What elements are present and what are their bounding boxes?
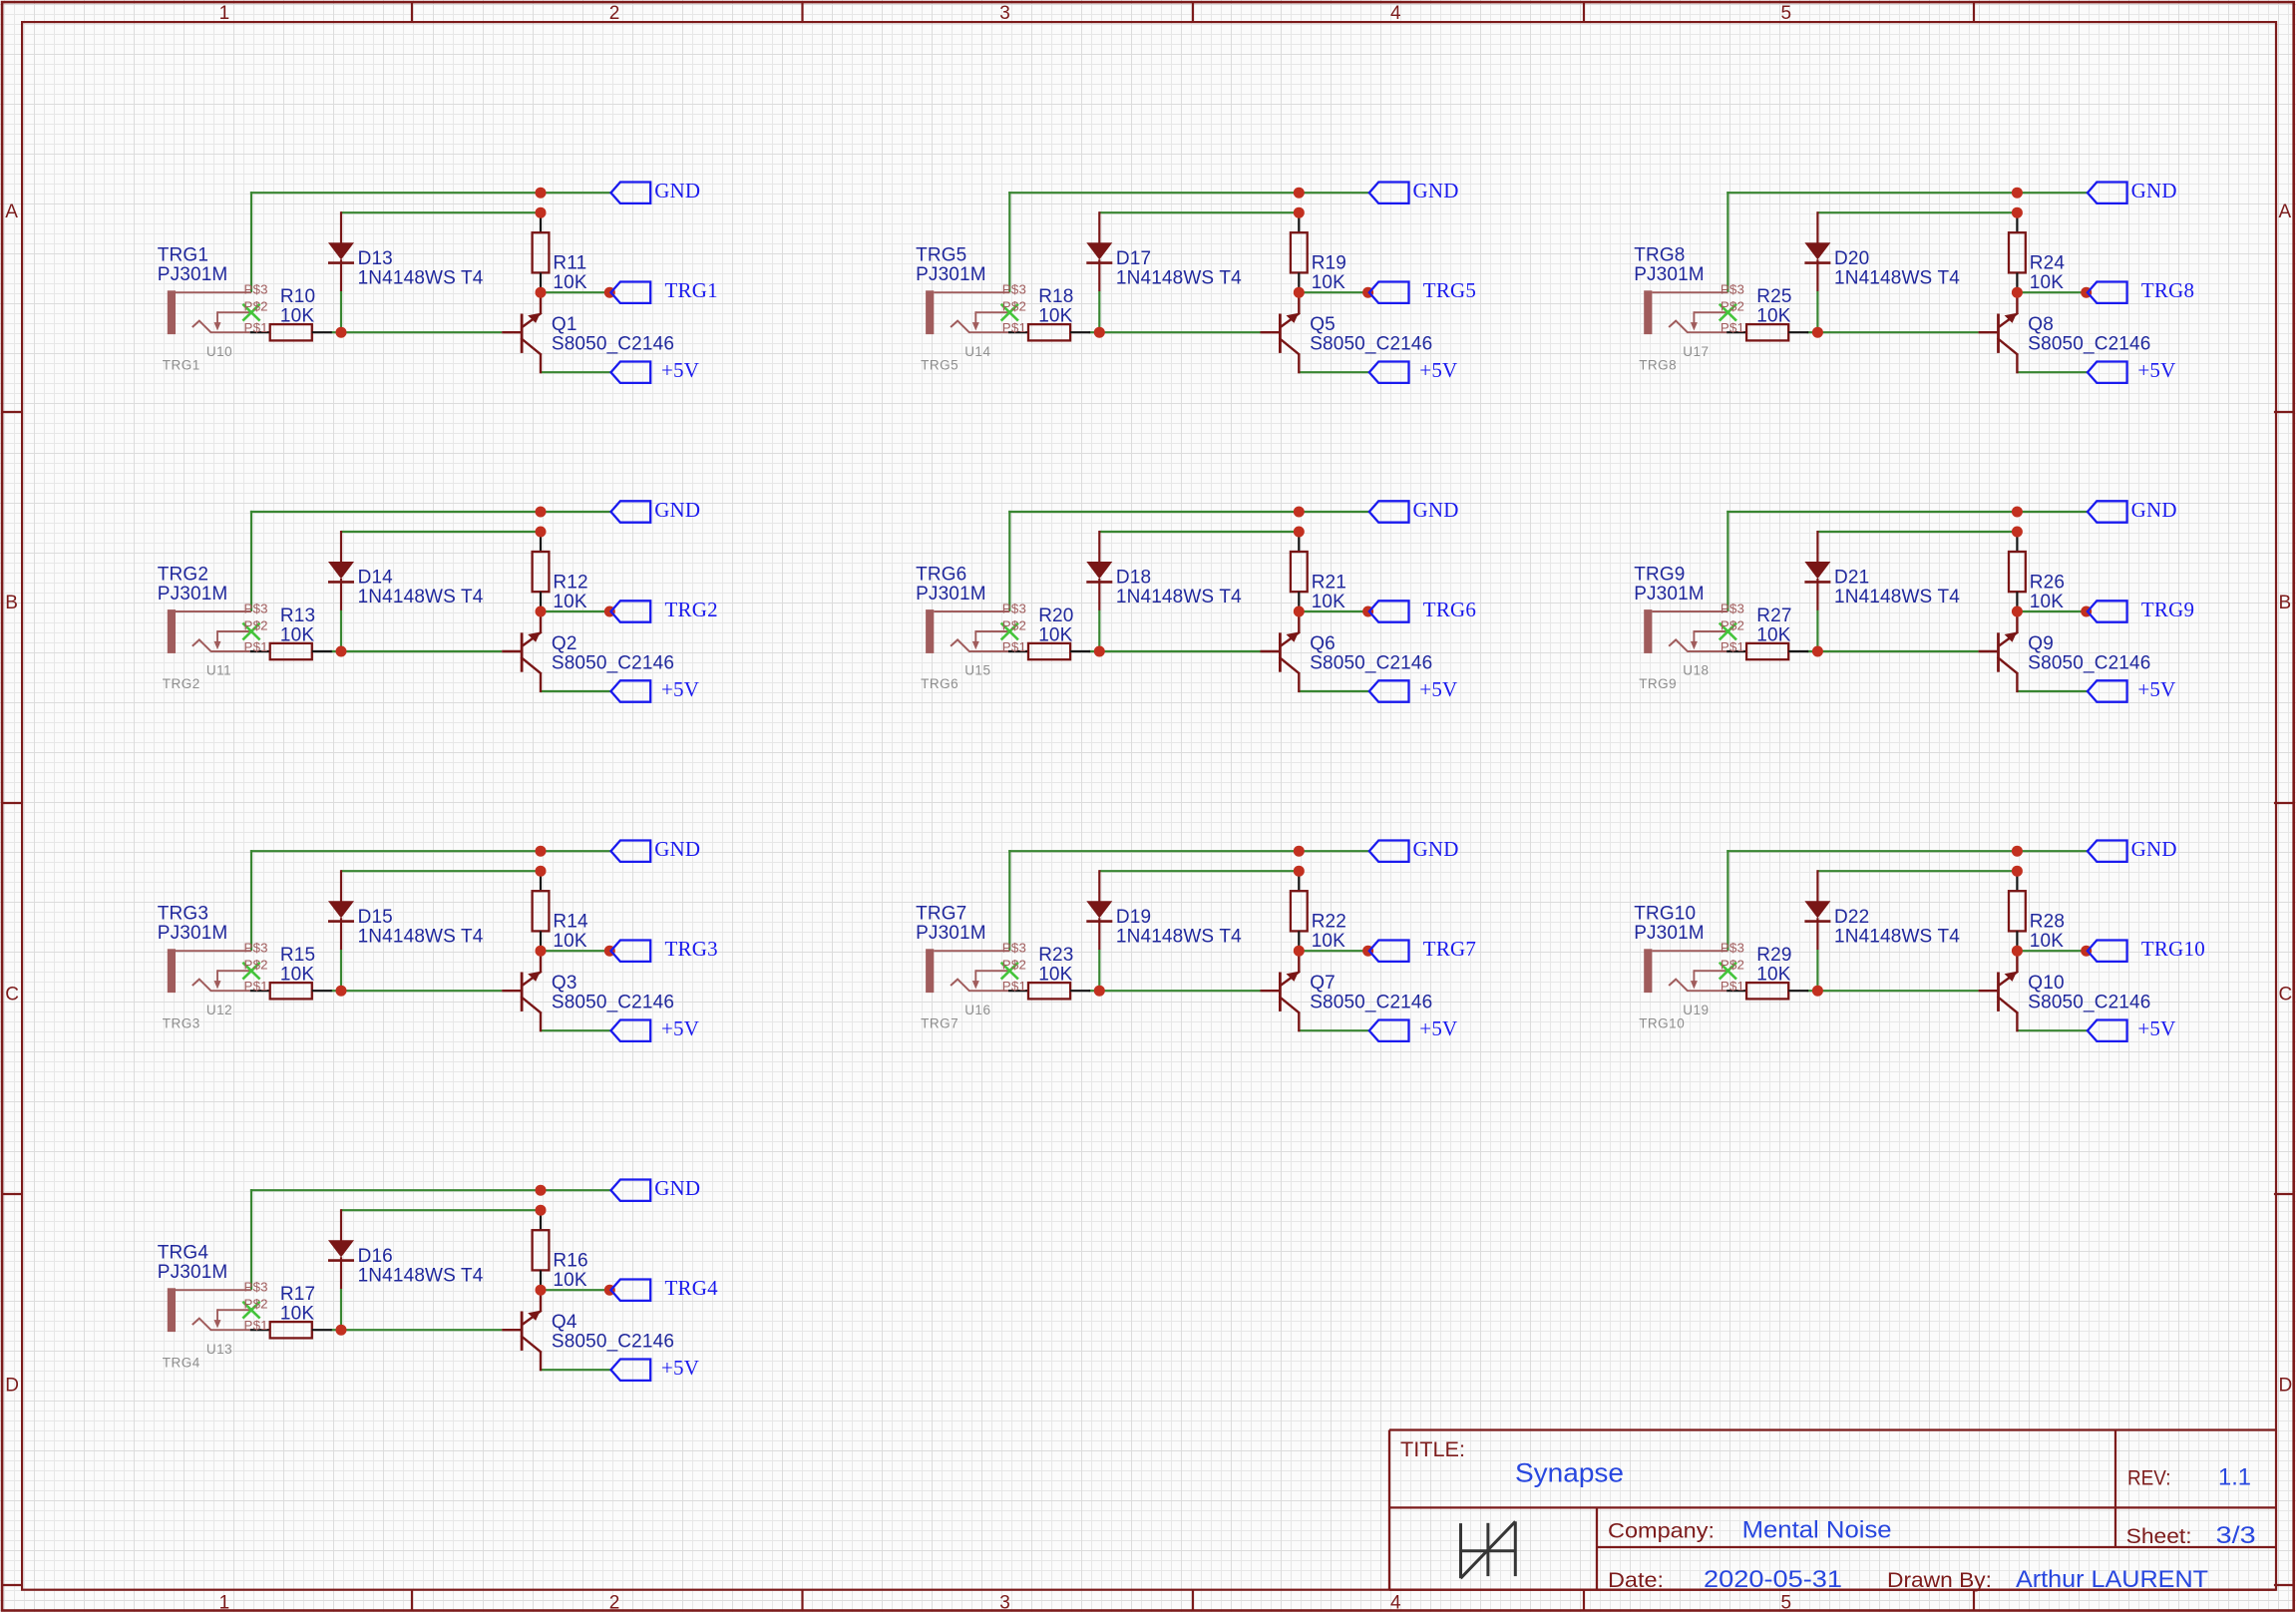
svg-text:3/3: 3/3: [2216, 1522, 2256, 1549]
svg-text:P$2: P$2: [1721, 958, 1744, 973]
svg-text:PJ301M: PJ301M: [916, 264, 986, 285]
svg-text:TRG8: TRG8: [1634, 245, 1685, 266]
svg-text:U12: U12: [206, 1003, 232, 1017]
svg-text:P$1: P$1: [1721, 639, 1744, 654]
svg-text:P$1: P$1: [1002, 979, 1026, 994]
svg-text:10K: 10K: [1038, 306, 1072, 327]
svg-text:Arthur LAURENT: Arthur LAURENT: [2016, 1566, 2208, 1593]
svg-text:TRG1: TRG1: [158, 245, 208, 266]
svg-text:1N4148WS T4: 1N4148WS T4: [1834, 926, 1960, 947]
svg-text:TRG7: TRG7: [916, 904, 966, 925]
svg-text:D18: D18: [1116, 568, 1151, 589]
svg-text:R29: R29: [1756, 945, 1791, 966]
svg-text:D13: D13: [358, 248, 393, 269]
svg-text:10K: 10K: [1756, 306, 1790, 327]
svg-text:A: A: [5, 201, 18, 222]
svg-text:Q9: Q9: [2028, 633, 2054, 654]
svg-text:TRG2: TRG2: [665, 598, 718, 621]
svg-text:10K: 10K: [1756, 624, 1790, 645]
svg-text:GND: GND: [1413, 179, 1459, 202]
svg-text:D17: D17: [1116, 248, 1151, 269]
svg-text:Q6: Q6: [1310, 633, 1336, 654]
svg-text:+5V: +5V: [2137, 358, 2175, 382]
svg-text:TRG10: TRG10: [2141, 937, 2205, 961]
svg-text:GND: GND: [2131, 837, 2177, 861]
svg-text:GND: GND: [1413, 498, 1459, 522]
svg-text:10K: 10K: [280, 965, 314, 986]
svg-text:P$3: P$3: [244, 941, 268, 956]
svg-text:1N4148WS T4: 1N4148WS T4: [1834, 267, 1960, 288]
svg-text:D19: D19: [1116, 907, 1151, 928]
svg-text:3: 3: [999, 3, 1010, 24]
svg-text:4: 4: [1390, 1593, 1401, 1612]
svg-text:P$3: P$3: [1721, 282, 1744, 297]
svg-text:GND: GND: [654, 837, 700, 861]
svg-text:P$2: P$2: [244, 958, 268, 973]
svg-text:P$1: P$1: [1721, 979, 1744, 994]
svg-text:TRG4: TRG4: [158, 1243, 209, 1264]
svg-text:TRG1: TRG1: [163, 357, 200, 372]
svg-text:PJ301M: PJ301M: [1634, 264, 1705, 285]
svg-text:B: B: [2279, 593, 2292, 613]
svg-text:P$3: P$3: [244, 1280, 268, 1295]
svg-text:PJ301M: PJ301M: [158, 923, 228, 944]
svg-text:10K: 10K: [553, 272, 586, 293]
svg-text:GND: GND: [654, 1176, 700, 1200]
svg-text:10K: 10K: [553, 931, 586, 952]
svg-text:10K: 10K: [2030, 592, 2064, 612]
svg-text:Synapse: Synapse: [1515, 1458, 1624, 1488]
svg-text:P$1: P$1: [244, 979, 268, 994]
svg-text:R28: R28: [2030, 912, 2065, 933]
svg-text:U14: U14: [964, 344, 990, 359]
svg-text:Mental Noise: Mental Noise: [1742, 1517, 1892, 1544]
svg-text:P$1: P$1: [1721, 320, 1744, 335]
svg-text:R12: R12: [553, 573, 587, 594]
svg-text:TRG6: TRG6: [916, 565, 966, 586]
svg-text:D21: D21: [1834, 568, 1869, 589]
svg-text:S8050_C2146: S8050_C2146: [1310, 993, 1432, 1013]
svg-text:10K: 10K: [1312, 272, 1345, 293]
svg-text:Q3: Q3: [552, 973, 577, 994]
svg-text:10K: 10K: [280, 624, 314, 645]
svg-text:GND: GND: [2131, 179, 2177, 202]
svg-text:D: D: [2279, 1376, 2293, 1397]
svg-text:S8050_C2146: S8050_C2146: [1310, 652, 1432, 673]
svg-text:P$1: P$1: [244, 639, 268, 654]
svg-text:Date:: Date:: [1608, 1569, 1664, 1592]
svg-text:10K: 10K: [280, 1304, 314, 1325]
svg-text:R24: R24: [2030, 253, 2066, 274]
svg-text:TRG10: TRG10: [1639, 1015, 1685, 1030]
svg-text:1N4148WS T4: 1N4148WS T4: [1116, 267, 1242, 288]
svg-text:10K: 10K: [1038, 965, 1072, 986]
svg-text:TRG8: TRG8: [1639, 357, 1677, 372]
svg-text:U18: U18: [1683, 663, 1709, 678]
svg-text:PJ301M: PJ301M: [158, 264, 228, 285]
svg-text:TRG4: TRG4: [665, 1276, 719, 1300]
svg-text:R10: R10: [280, 286, 315, 307]
svg-text:Q10: Q10: [2028, 973, 2064, 994]
svg-text:TRG10: TRG10: [1634, 904, 1696, 925]
svg-text:R17: R17: [280, 1284, 315, 1305]
svg-text:S8050_C2146: S8050_C2146: [2028, 652, 2150, 673]
svg-text:GND: GND: [654, 498, 700, 522]
svg-text:D15: D15: [358, 907, 393, 928]
svg-text:R27: R27: [1756, 605, 1791, 626]
svg-text:TRG3: TRG3: [163, 1015, 200, 1030]
svg-text:P$1: P$1: [1002, 639, 1026, 654]
svg-text:TRG5: TRG5: [1423, 278, 1476, 302]
svg-text:P$3: P$3: [1721, 941, 1744, 956]
svg-text:P$2: P$2: [244, 618, 268, 633]
svg-text:P$2: P$2: [1002, 299, 1026, 314]
svg-text:D22: D22: [1834, 907, 1869, 928]
svg-text:R20: R20: [1038, 605, 1073, 626]
svg-text:S8050_C2146: S8050_C2146: [552, 1332, 674, 1353]
svg-text:TRG2: TRG2: [158, 565, 208, 586]
svg-text:P$1: P$1: [1002, 320, 1026, 335]
svg-text:+5V: +5V: [661, 1356, 699, 1380]
svg-text:TRG7: TRG7: [921, 1015, 958, 1030]
svg-text:S8050_C2146: S8050_C2146: [1310, 334, 1432, 355]
svg-text:1: 1: [219, 3, 230, 24]
svg-text:Q8: Q8: [2028, 314, 2054, 335]
svg-text:Company:: Company:: [1608, 1520, 1715, 1543]
svg-text:U19: U19: [1683, 1003, 1709, 1017]
svg-text:S8050_C2146: S8050_C2146: [552, 652, 674, 673]
svg-text:U10: U10: [206, 344, 232, 359]
svg-text:R23: R23: [1038, 945, 1073, 966]
svg-text:GND: GND: [2131, 498, 2177, 522]
svg-text:PJ301M: PJ301M: [158, 584, 228, 604]
svg-text:PJ301M: PJ301M: [916, 584, 986, 604]
svg-text:P$3: P$3: [1721, 602, 1744, 616]
svg-text:R19: R19: [1312, 253, 1346, 274]
svg-text:1N4148WS T4: 1N4148WS T4: [358, 267, 484, 288]
svg-text:3: 3: [999, 1593, 1010, 1612]
svg-text:4: 4: [1390, 3, 1401, 24]
svg-text:10K: 10K: [2030, 272, 2064, 293]
svg-text:TRG4: TRG4: [163, 1355, 200, 1370]
svg-text:10K: 10K: [1312, 592, 1345, 612]
svg-text:P$1: P$1: [244, 320, 268, 335]
svg-text:10K: 10K: [1312, 931, 1345, 952]
svg-text:1N4148WS T4: 1N4148WS T4: [1116, 926, 1242, 947]
svg-text:1N4148WS T4: 1N4148WS T4: [358, 1265, 484, 1286]
svg-text:TITLE:: TITLE:: [1400, 1438, 1465, 1461]
svg-text:S8050_C2146: S8050_C2146: [2028, 334, 2150, 355]
svg-text:TRG3: TRG3: [665, 937, 718, 961]
svg-text:R14: R14: [553, 912, 588, 933]
svg-text:D16: D16: [358, 1246, 393, 1267]
svg-text:U16: U16: [964, 1003, 990, 1017]
svg-text:GND: GND: [1413, 837, 1459, 861]
svg-text:S8050_C2146: S8050_C2146: [552, 334, 674, 355]
svg-text:Q4: Q4: [552, 1312, 577, 1333]
svg-text:P$2: P$2: [244, 299, 268, 314]
svg-text:B: B: [5, 593, 18, 613]
svg-text:+5V: +5V: [1419, 1016, 1457, 1040]
svg-text:TRG5: TRG5: [921, 357, 958, 372]
svg-text:U11: U11: [206, 663, 231, 678]
svg-text:D: D: [5, 1376, 19, 1397]
svg-text:TRG9: TRG9: [2141, 598, 2194, 621]
svg-text:5: 5: [1781, 3, 1792, 24]
svg-text:PJ301M: PJ301M: [1634, 584, 1705, 604]
svg-text:TRG8: TRG8: [2141, 278, 2194, 302]
svg-text:D14: D14: [358, 568, 394, 589]
svg-text:P$2: P$2: [244, 1297, 268, 1312]
svg-text:PJ301M: PJ301M: [916, 923, 986, 944]
svg-text:+5V: +5V: [2137, 1016, 2175, 1040]
svg-text:10K: 10K: [553, 1270, 586, 1291]
svg-text:10K: 10K: [1756, 965, 1790, 986]
svg-text:+5V: +5V: [2137, 677, 2175, 701]
svg-text:P$2: P$2: [1002, 958, 1026, 973]
svg-text:R21: R21: [1312, 573, 1346, 594]
svg-text:10K: 10K: [2030, 931, 2064, 952]
svg-text:1N4148WS T4: 1N4148WS T4: [1834, 587, 1960, 607]
svg-text:R18: R18: [1038, 286, 1073, 307]
svg-text:S8050_C2146: S8050_C2146: [552, 993, 674, 1013]
svg-text:P$3: P$3: [244, 602, 268, 616]
svg-text:1N4148WS T4: 1N4148WS T4: [1116, 587, 1242, 607]
svg-text:TRG1: TRG1: [665, 278, 718, 302]
svg-text:2020-05-31: 2020-05-31: [1704, 1566, 1842, 1593]
svg-text:R16: R16: [553, 1251, 587, 1272]
svg-text:C: C: [5, 985, 19, 1006]
svg-text:TRG6: TRG6: [1423, 598, 1476, 621]
svg-text:P$3: P$3: [1002, 282, 1026, 297]
svg-text:1: 1: [219, 1593, 230, 1612]
svg-text:U17: U17: [1683, 344, 1709, 359]
svg-text:GND: GND: [654, 179, 700, 202]
svg-text:Q5: Q5: [1310, 314, 1336, 335]
svg-text:1.1: 1.1: [2218, 1464, 2251, 1491]
svg-text:D20: D20: [1834, 248, 1869, 269]
svg-text:P$2: P$2: [1721, 618, 1744, 633]
svg-text:TRG5: TRG5: [916, 245, 966, 266]
svg-text:TRG2: TRG2: [163, 676, 200, 691]
svg-text:+5V: +5V: [661, 1016, 699, 1040]
svg-text:Sheet:: Sheet:: [2126, 1525, 2192, 1548]
svg-text:2: 2: [609, 3, 620, 24]
svg-text:Q7: Q7: [1310, 973, 1336, 994]
svg-text:REV:: REV:: [2127, 1467, 2171, 1490]
svg-text:10K: 10K: [1038, 624, 1072, 645]
svg-text:C: C: [2279, 985, 2293, 1006]
svg-text:+5V: +5V: [661, 677, 699, 701]
svg-text:+5V: +5V: [1419, 677, 1457, 701]
svg-text:2: 2: [609, 1593, 620, 1612]
svg-text:R22: R22: [1312, 912, 1346, 933]
svg-text:R15: R15: [280, 945, 315, 966]
svg-text:P$1: P$1: [244, 1318, 268, 1333]
svg-text:TRG6: TRG6: [921, 676, 958, 691]
svg-text:P$3: P$3: [1002, 941, 1026, 956]
svg-text:R11: R11: [553, 253, 586, 274]
svg-text:P$3: P$3: [244, 282, 268, 297]
svg-text:PJ301M: PJ301M: [1634, 923, 1705, 944]
svg-text:Q2: Q2: [552, 633, 577, 654]
svg-text:Q1: Q1: [552, 314, 577, 335]
svg-text:S8050_C2146: S8050_C2146: [2028, 993, 2150, 1013]
svg-text:Drawn By:: Drawn By:: [1887, 1569, 1992, 1592]
svg-text:1N4148WS T4: 1N4148WS T4: [358, 587, 484, 607]
svg-text:TRG9: TRG9: [1634, 565, 1685, 586]
svg-text:PJ301M: PJ301M: [158, 1262, 228, 1283]
svg-text:10K: 10K: [553, 592, 586, 612]
svg-text:U15: U15: [964, 663, 990, 678]
svg-text:R26: R26: [2030, 573, 2065, 594]
svg-text:P$3: P$3: [1002, 602, 1026, 616]
svg-text:1N4148WS T4: 1N4148WS T4: [358, 926, 484, 947]
svg-text:P$2: P$2: [1721, 299, 1744, 314]
svg-text:R25: R25: [1756, 286, 1791, 307]
svg-text:R13: R13: [280, 605, 315, 626]
svg-text:5: 5: [1781, 1593, 1792, 1612]
svg-text:U13: U13: [206, 1342, 232, 1357]
svg-text:TRG7: TRG7: [1423, 937, 1476, 961]
svg-text:P$2: P$2: [1002, 618, 1026, 633]
svg-text:+5V: +5V: [661, 358, 699, 382]
svg-text:TRG9: TRG9: [1639, 676, 1677, 691]
svg-text:10K: 10K: [280, 306, 314, 327]
svg-text:TRG3: TRG3: [158, 904, 208, 925]
svg-text:+5V: +5V: [1419, 358, 1457, 382]
svg-text:A: A: [2279, 201, 2292, 222]
